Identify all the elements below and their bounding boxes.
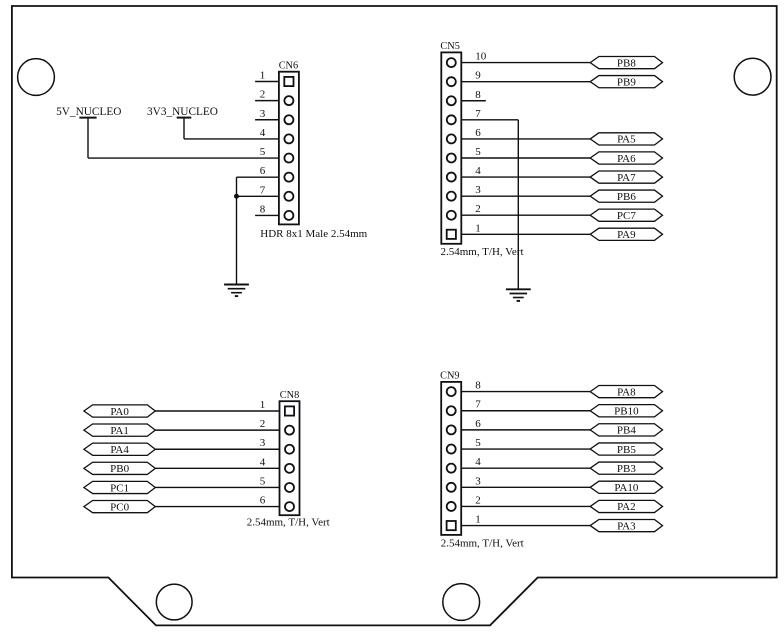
svg-text:PC0: PC0 [110,501,129,513]
svg-text:2.54mm, T/H, Vert: 2.54mm, T/H, Vert [441,537,524,549]
svg-text:6: 6 [260,495,266,507]
svg-text:2: 2 [260,418,266,430]
svg-text:4: 4 [475,456,481,468]
svg-text:PC1: PC1 [110,482,129,494]
svg-text:PC7: PC7 [617,210,636,222]
svg-text:CN8: CN8 [280,390,299,401]
svg-text:7: 7 [475,108,481,120]
svg-text:1: 1 [260,399,266,411]
svg-text:PA10: PA10 [614,482,639,494]
svg-text:6: 6 [475,127,481,139]
svg-text:PB4: PB4 [617,425,636,437]
svg-text:9: 9 [475,70,481,82]
svg-text:PB10: PB10 [614,406,639,418]
svg-text:5: 5 [260,146,266,158]
svg-text:PB8: PB8 [617,57,636,69]
svg-text:2: 2 [260,89,266,101]
svg-text:7: 7 [475,399,481,411]
svg-text:3: 3 [475,184,481,196]
svg-text:PA7: PA7 [617,172,636,184]
svg-text:7: 7 [260,184,266,196]
svg-text:3: 3 [260,108,266,120]
svg-text:PA8: PA8 [617,386,636,398]
svg-text:2.54mm, T/H, Vert: 2.54mm, T/H, Vert [247,516,330,528]
svg-text:10: 10 [475,51,487,63]
svg-text:CN9: CN9 [440,371,459,382]
svg-text:3: 3 [260,437,266,449]
svg-text:5: 5 [260,475,266,487]
svg-text:PB3: PB3 [617,463,636,475]
svg-text:4: 4 [260,127,266,139]
svg-text:HDR 8x1 Male 2.54mm: HDR 8x1 Male 2.54mm [260,228,367,240]
svg-text:1: 1 [475,514,481,526]
svg-text:3: 3 [475,475,481,487]
svg-text:4: 4 [260,456,266,468]
svg-text:2: 2 [475,494,481,506]
svg-text:CN6: CN6 [279,61,298,72]
svg-text:PA0: PA0 [110,406,129,418]
svg-text:6: 6 [260,165,266,177]
svg-text:PB5: PB5 [617,444,636,456]
svg-text:PA1: PA1 [110,425,129,437]
svg-text:PB9: PB9 [617,76,636,88]
svg-text:8: 8 [475,89,481,101]
svg-text:PA3: PA3 [617,520,636,532]
svg-text:1: 1 [475,222,481,234]
svg-text:CN5: CN5 [440,41,459,52]
svg-text:5V_NUCLEO: 5V_NUCLEO [56,106,121,118]
svg-text:5: 5 [475,437,481,449]
svg-text:4: 4 [475,165,481,177]
svg-text:3V3_NUCLEO: 3V3_NUCLEO [147,106,218,118]
svg-text:PA2: PA2 [617,501,636,513]
svg-text:2.54mm, T/H, Vert: 2.54mm, T/H, Vert [441,246,524,258]
svg-text:2: 2 [475,203,481,215]
svg-text:1: 1 [260,70,266,82]
svg-text:PB0: PB0 [110,463,129,475]
svg-text:PA4: PA4 [110,444,129,456]
svg-text:8: 8 [475,380,481,392]
svg-text:5: 5 [475,146,481,158]
svg-text:PB6: PB6 [617,191,636,203]
svg-text:8: 8 [260,203,266,215]
svg-text:PA9: PA9 [617,229,636,241]
svg-text:PA5: PA5 [617,134,636,146]
svg-text:PA6: PA6 [617,153,636,165]
svg-text:6: 6 [475,418,481,430]
